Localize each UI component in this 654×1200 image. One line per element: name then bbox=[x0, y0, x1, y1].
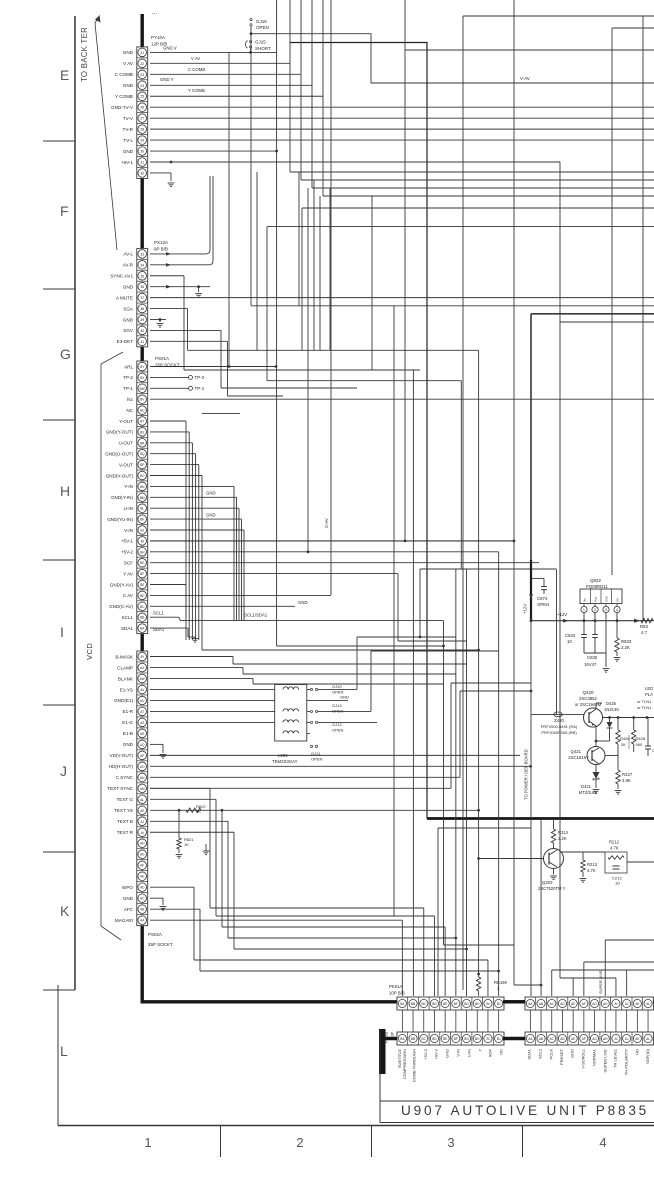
svg-text:GND: GND bbox=[123, 149, 134, 154]
svg-text:Vin: Vin bbox=[582, 598, 586, 602]
svg-text:or TLN1: or TLN1 bbox=[637, 699, 652, 704]
svg-text:2SC1815Y: 2SC1815Y bbox=[568, 755, 589, 760]
svg-text:Y-IN: Y-IN bbox=[124, 484, 133, 489]
svg-text:BJ: BJ bbox=[140, 529, 144, 533]
svg-text:R83: R83 bbox=[640, 624, 648, 629]
svg-text:BE: BE bbox=[443, 1002, 447, 1006]
svg-text:Q203: Q203 bbox=[542, 880, 553, 885]
svg-text:TH POLARITY: TH POLARITY bbox=[624, 1049, 629, 1076]
svg-text:GND: GND bbox=[123, 742, 134, 747]
svg-text:D426: D426 bbox=[606, 701, 617, 706]
svg-text:BI: BI bbox=[486, 1002, 489, 1006]
svg-text:OPEN: OPEN bbox=[332, 728, 343, 733]
svg-text:2SC7520TM Y: 2SC7520TM Y bbox=[538, 886, 566, 891]
svg-text:AB: AB bbox=[539, 1002, 543, 1006]
svg-text:34: 34 bbox=[140, 263, 144, 267]
svg-text:PRESET: PRESET bbox=[559, 1048, 564, 1065]
svg-text:PRF2000-5491 (RA): PRF2000-5491 (RA) bbox=[541, 724, 578, 729]
svg-text:WPO: WPO bbox=[122, 885, 133, 890]
svg-text:SDA1: SDA1 bbox=[153, 627, 165, 632]
svg-text:21: 21 bbox=[140, 51, 144, 55]
svg-text:3: 3 bbox=[447, 1135, 454, 1150]
svg-text:AH: AH bbox=[603, 1037, 608, 1041]
svg-text:GND: GND bbox=[123, 50, 134, 55]
svg-text:1: 1 bbox=[583, 608, 585, 612]
svg-text:F: F bbox=[60, 203, 69, 219]
svg-text:+9V-2: +9V-2 bbox=[434, 1048, 439, 1059]
svg-text:BR: BR bbox=[140, 441, 145, 445]
svg-text:BD: BD bbox=[140, 594, 145, 598]
svg-text:38: 38 bbox=[140, 307, 144, 311]
svg-text:BD: BD bbox=[432, 1002, 437, 1006]
svg-text:2: 2 bbox=[296, 1135, 303, 1150]
svg-text:Vout: Vout bbox=[593, 597, 597, 602]
svg-text:BH: BH bbox=[475, 1037, 480, 1041]
svg-text:E1-G: E1-G bbox=[122, 720, 133, 725]
svg-text:TEXT YS: TEXT YS bbox=[114, 808, 133, 813]
svg-text:3.9K: 3.9K bbox=[622, 778, 631, 783]
svg-text:AD: AD bbox=[140, 886, 145, 890]
svg-text:Y COMB: Y COMB bbox=[188, 88, 205, 93]
svg-text:GJ11: GJ11 bbox=[311, 751, 321, 756]
svg-text:33: 33 bbox=[140, 252, 144, 256]
svg-text:AH: AH bbox=[603, 1002, 608, 1006]
svg-text:Y AV: Y AV bbox=[123, 571, 134, 576]
svg-text:AL: AL bbox=[140, 798, 144, 802]
svg-text:RK196: RK196 bbox=[494, 980, 507, 985]
svg-text:OPEN: OPEN bbox=[311, 757, 322, 762]
svg-text:BG: BG bbox=[464, 1002, 469, 1006]
svg-text:TO POWER / DEF BOARD: TO POWER / DEF BOARD bbox=[523, 749, 528, 800]
svg-text:TO BACK TER: TO BACK TER bbox=[80, 27, 89, 82]
svg-text:C COMB: C COMB bbox=[115, 72, 133, 77]
svg-text:2.2K: 2.2K bbox=[558, 836, 567, 841]
svg-text:BU: BU bbox=[140, 409, 145, 413]
svg-text:R427: R427 bbox=[622, 772, 633, 777]
svg-text:AI: AI bbox=[141, 831, 144, 835]
svg-text:SGA: SGA bbox=[123, 306, 134, 311]
svg-text:AD: AD bbox=[560, 1037, 565, 1041]
svg-text:24: 24 bbox=[140, 84, 144, 88]
svg-text:HD: HD bbox=[635, 1049, 640, 1055]
svg-text:SDA1: SDA1 bbox=[121, 626, 133, 631]
svg-text:R833: R833 bbox=[621, 639, 632, 644]
svg-text:BG: BG bbox=[140, 561, 145, 565]
svg-text:U-IN: U-IN bbox=[124, 506, 133, 511]
svg-text:AJ: AJ bbox=[625, 1002, 629, 1006]
svg-text:Y: Y bbox=[478, 1049, 483, 1052]
svg-text:C AV: C AV bbox=[123, 593, 134, 598]
svg-text:22: 22 bbox=[140, 62, 144, 66]
svg-text:TEXT B: TEXT B bbox=[117, 819, 133, 824]
svg-text:BM: BM bbox=[140, 496, 145, 500]
svg-text:AU: AU bbox=[140, 699, 145, 703]
svg-text:BO: BO bbox=[140, 474, 145, 478]
svg-text:AC: AC bbox=[140, 897, 145, 901]
svg-text:AR: AR bbox=[140, 732, 145, 736]
svg-text:AF: AF bbox=[140, 864, 144, 868]
svg-text:COMB THROUGH: COMB THROUGH bbox=[412, 1049, 417, 1082]
svg-text:BQ: BQ bbox=[140, 452, 145, 456]
svg-text:GND: GND bbox=[340, 695, 349, 700]
svg-text:Z420: Z420 bbox=[554, 718, 564, 723]
svg-text:BP: BP bbox=[140, 463, 144, 467]
svg-text:SGV: SGV bbox=[123, 328, 134, 333]
svg-text:GND(E1): GND(E1) bbox=[114, 698, 133, 703]
svg-text:TP-1: TP-1 bbox=[123, 386, 133, 391]
svg-text:E1-B: E1-B bbox=[123, 731, 133, 736]
svg-text:SCL1: SCL1 bbox=[538, 1048, 543, 1059]
svg-text:ARL: ARL bbox=[124, 364, 133, 369]
svg-text:R213: R213 bbox=[587, 862, 598, 867]
svg-text:BF: BF bbox=[454, 1002, 458, 1006]
svg-text:SCL1: SCL1 bbox=[153, 611, 164, 616]
svg-text:BB: BB bbox=[411, 1002, 415, 1006]
svg-text:MTZ/5.6B: MTZ/5.6B bbox=[579, 790, 598, 795]
svg-text:AI: AI bbox=[614, 1002, 617, 1006]
svg-text:AF: AF bbox=[582, 1002, 586, 1006]
svg-text:TEXT SYNC: TEXT SYNC bbox=[107, 786, 133, 791]
svg-text:E1-YS: E1-YS bbox=[120, 687, 133, 692]
svg-text:2: 2 bbox=[594, 608, 596, 612]
svg-text:4.7K: 4.7K bbox=[587, 868, 596, 873]
svg-text:VD(V-OUT): VD(V-OUT) bbox=[110, 753, 134, 758]
svg-text:BD: BD bbox=[432, 1037, 437, 1041]
svg-text:AFC: AFC bbox=[124, 907, 134, 912]
svg-text:1N4148: 1N4148 bbox=[604, 707, 619, 712]
svg-text:TP-2: TP-2 bbox=[195, 375, 205, 380]
svg-text:MAGARI: MAGARI bbox=[115, 918, 133, 923]
svg-text:BT: BT bbox=[140, 420, 144, 424]
svg-text:AL: AL bbox=[646, 1002, 650, 1006]
svg-text:10P B/B: 10P B/B bbox=[389, 991, 405, 996]
svg-text:TP-2: TP-2 bbox=[123, 375, 133, 380]
svg-text:H: H bbox=[60, 483, 70, 499]
svg-text:TEM2S3GAY: TEM2S3GAY bbox=[272, 759, 298, 764]
svg-text:V-AV: V-AV bbox=[520, 76, 530, 81]
svg-text:GJ12: GJ12 bbox=[332, 722, 342, 727]
svg-text:GND: GND bbox=[445, 1049, 450, 1058]
svg-text:37: 37 bbox=[140, 296, 144, 300]
svg-text:TEXT R: TEXT R bbox=[117, 830, 134, 835]
svg-text:BLANK: BLANK bbox=[118, 676, 134, 681]
svg-text:OPEN: OPEN bbox=[332, 709, 343, 714]
svg-text:OPEN: OPEN bbox=[332, 690, 343, 695]
svg-text:10: 10 bbox=[567, 639, 572, 644]
svg-text:GND: GND bbox=[206, 491, 216, 496]
svg-text:D421: D421 bbox=[581, 784, 592, 789]
svg-text:C-AV: C-AV bbox=[324, 518, 329, 528]
svg-text:J: J bbox=[60, 763, 67, 779]
svg-text:TV-L: TV-L bbox=[123, 138, 133, 143]
svg-text:GND(Y-OUT): GND(Y-OUT) bbox=[106, 430, 134, 435]
svg-text:AV-L: AV-L bbox=[123, 252, 133, 257]
svg-text:HD(H-OUT): HD(H-OUT) bbox=[109, 764, 134, 769]
svg-text:32: 32 bbox=[140, 171, 144, 175]
svg-text:A MUTE: A MUTE bbox=[116, 295, 133, 300]
svg-text:NC: NC bbox=[126, 408, 133, 413]
svg-text:10P: 10P bbox=[391, 1031, 395, 1038]
svg-text:4: 4 bbox=[599, 1135, 606, 1150]
svg-text:V AV: V AV bbox=[123, 61, 134, 66]
svg-text:GND Y: GND Y bbox=[160, 77, 174, 82]
svg-text:4: 4 bbox=[616, 608, 618, 612]
svg-text:AB: AB bbox=[140, 908, 144, 912]
svg-text:CLAMP: CLAMP bbox=[117, 665, 133, 670]
svg-text:1K: 1K bbox=[184, 842, 189, 847]
svg-text:AE: AE bbox=[571, 1037, 575, 1041]
svg-text:C SYNC: C SYNC bbox=[116, 775, 134, 780]
svg-text:AQ: AQ bbox=[140, 743, 145, 747]
svg-text:AS: AS bbox=[140, 721, 144, 725]
svg-text:12P B/B: 12P B/B bbox=[151, 42, 167, 47]
svg-text:Y COMB: Y COMB bbox=[115, 94, 133, 99]
svg-text:BB: BB bbox=[140, 616, 144, 620]
svg-text:AF: AF bbox=[582, 1037, 586, 1041]
svg-text:C COMB: C COMB bbox=[188, 67, 205, 72]
svg-text:or TLN1: or TLN1 bbox=[637, 705, 652, 710]
svg-text:SDA1: SDA1 bbox=[527, 1048, 532, 1059]
svg-text:GND(C-AV): GND(C-AV) bbox=[109, 604, 133, 609]
svg-text:Y-OUT: Y-OUT bbox=[119, 419, 133, 424]
svg-text:E3-DET: E3-DET bbox=[117, 339, 134, 344]
svg-text:9P B/B: 9P B/B bbox=[154, 247, 168, 252]
svg-text:TV-V: TV-V bbox=[123, 116, 134, 121]
svg-text:AP: AP bbox=[140, 754, 144, 758]
svg-text:ON: ON bbox=[615, 598, 619, 602]
svg-text:GND(Y-IN): GND(Y-IN) bbox=[111, 495, 134, 500]
svg-text:AG: AG bbox=[592, 1002, 597, 1006]
svg-text:AN: AN bbox=[140, 776, 145, 780]
svg-text:BB: BB bbox=[411, 1037, 415, 1041]
svg-text:+5V-1: +5V-1 bbox=[121, 539, 134, 544]
svg-text:SCL1/SDA1: SCL1/SDA1 bbox=[244, 613, 268, 618]
svg-text:AG: AG bbox=[592, 1037, 597, 1041]
svg-text:SOF(ID): SOF(ID) bbox=[645, 1048, 650, 1064]
svg-text:AW: AW bbox=[140, 677, 145, 681]
svg-text:PY10A: PY10A bbox=[151, 35, 165, 40]
svg-text:+9V-1: +9V-1 bbox=[121, 160, 134, 165]
svg-text:BH: BH bbox=[140, 550, 145, 554]
svg-text:R214: R214 bbox=[558, 830, 569, 835]
svg-text:40: 40 bbox=[140, 329, 144, 333]
svg-text:Q421: Q421 bbox=[570, 749, 581, 754]
svg-text:L203: L203 bbox=[278, 753, 288, 758]
svg-text:AG: AG bbox=[140, 853, 145, 857]
svg-text:GJ10: GJ10 bbox=[332, 684, 342, 689]
svg-text:29: 29 bbox=[140, 139, 144, 143]
svg-text:V-IN: V-IN bbox=[456, 1049, 461, 1057]
svg-text:SUPER LIVE: SUPER LIVE bbox=[603, 1049, 608, 1073]
svg-text:31: 31 bbox=[140, 161, 144, 165]
svg-text:1K: 1K bbox=[196, 809, 201, 814]
svg-text:SHORT: SHORT bbox=[255, 46, 271, 51]
svg-text:AO: AO bbox=[140, 765, 145, 769]
svg-text:BC: BC bbox=[422, 1002, 427, 1006]
svg-text:GND: GND bbox=[570, 1049, 575, 1058]
svg-text:G: G bbox=[60, 346, 71, 362]
svg-text:V-SCROLL: V-SCROLL bbox=[581, 1048, 586, 1069]
svg-text:Q420: Q420 bbox=[582, 690, 594, 695]
svg-text:3: 3 bbox=[605, 608, 607, 612]
svg-text:GND-TV-V: GND-TV-V bbox=[111, 105, 134, 110]
svg-text:+5V-2: +5V-2 bbox=[423, 1048, 428, 1059]
svg-text:BN: BN bbox=[140, 485, 145, 489]
svg-text:C874: C874 bbox=[537, 596, 548, 601]
svg-text:U-IN: U-IN bbox=[467, 1049, 472, 1057]
svg-text:GND: GND bbox=[123, 896, 134, 901]
svg-text:25P SOCKT: 25P SOCKT bbox=[148, 942, 173, 947]
svg-text:U907 AUTOLIVE UNIT P8835: U907 AUTOLIVE UNIT P8835 bbox=[401, 1103, 649, 1118]
svg-text:BE: BE bbox=[140, 583, 144, 587]
svg-text:BI: BI bbox=[141, 539, 144, 543]
svg-text:AC: AC bbox=[550, 1037, 555, 1041]
svg-text:BG: BG bbox=[464, 1037, 469, 1041]
svg-text:BF: BF bbox=[454, 1037, 458, 1041]
svg-text:+12V: +12V bbox=[523, 604, 528, 614]
svg-text:2SC3852: 2SC3852 bbox=[579, 696, 598, 701]
svg-text:GND(V-OUT): GND(V-OUT) bbox=[106, 473, 134, 478]
svg-text:BL: BL bbox=[140, 507, 144, 511]
svg-text:fsc: fsc bbox=[127, 397, 134, 402]
svg-text:39: 39 bbox=[140, 318, 144, 322]
svg-text:GND(YU-IN): GND(YU-IN) bbox=[107, 517, 133, 522]
svg-text:I: I bbox=[60, 624, 64, 640]
svg-text:BI: BI bbox=[486, 1037, 489, 1041]
svg-text:GJ15: GJ15 bbox=[255, 40, 266, 45]
svg-text:SYNC-AV1: SYNC-AV1 bbox=[110, 274, 133, 279]
svg-text:30: 30 bbox=[140, 150, 144, 154]
svg-text:SOF: SOF bbox=[488, 1048, 493, 1057]
svg-text:PK21B: PK21B bbox=[385, 1031, 389, 1043]
svg-text:2K: 2K bbox=[621, 742, 626, 747]
svg-text:TEXT G: TEXT G bbox=[116, 797, 133, 802]
svg-text:AM: AM bbox=[140, 787, 145, 791]
svg-text:PRF2000F008 (RB): PRF2000F008 (RB) bbox=[541, 730, 577, 735]
svg-text:35: 35 bbox=[140, 274, 144, 278]
svg-text:23: 23 bbox=[140, 73, 144, 77]
svg-text:28: 28 bbox=[140, 128, 144, 132]
svg-text:GND(U-OUT): GND(U-OUT) bbox=[105, 452, 133, 457]
svg-text:AC: AC bbox=[550, 1002, 555, 1006]
svg-text:AD: AD bbox=[560, 1002, 565, 1006]
svg-text:PS02A: PS02A bbox=[148, 932, 162, 937]
svg-text:BJ: BJ bbox=[497, 1037, 501, 1041]
svg-text:TH LEVEL: TH LEVEL bbox=[613, 1048, 618, 1068]
svg-text:AT: AT bbox=[140, 710, 144, 714]
svg-text:PX12A: PX12A bbox=[154, 240, 168, 245]
svg-text:BW: BW bbox=[140, 387, 145, 391]
svg-text:GND: GND bbox=[123, 83, 134, 88]
svg-text:PCLK: PCLK bbox=[549, 1049, 554, 1060]
svg-text:AJ: AJ bbox=[625, 1037, 629, 1041]
svg-text:Q832: Q832 bbox=[590, 578, 602, 583]
svg-text:560: 560 bbox=[636, 742, 643, 747]
svg-text:AE: AE bbox=[140, 875, 144, 879]
svg-text:AB: AB bbox=[539, 1037, 543, 1041]
svg-text:27: 27 bbox=[140, 117, 144, 121]
svg-text:GJ13: GJ13 bbox=[332, 703, 342, 708]
svg-text:C835: C835 bbox=[587, 655, 598, 660]
svg-text:NC: NC bbox=[499, 1049, 504, 1055]
svg-text:COMPRESSION: COMPRESSION bbox=[402, 1049, 407, 1079]
svg-text:SCL1: SCL1 bbox=[122, 615, 134, 620]
svg-text:TP-1: TP-1 bbox=[195, 386, 205, 391]
svg-text:NORMAL: NORMAL bbox=[592, 1048, 597, 1066]
svg-text:...: ... bbox=[152, 10, 157, 16]
svg-text:AV-R: AV-R bbox=[123, 263, 134, 268]
svg-text:BC: BC bbox=[140, 605, 145, 609]
svg-text:GND(Y-AV): GND(Y-AV) bbox=[110, 582, 134, 587]
svg-text:1: 1 bbox=[144, 1135, 151, 1150]
svg-text:B-MASK: B-MASK bbox=[115, 654, 134, 659]
svg-text:SUPER LIVE: SUPER LIVE bbox=[598, 970, 603, 994]
svg-text:SCF: SCF bbox=[124, 561, 133, 566]
svg-text:AJ: AJ bbox=[140, 820, 144, 824]
svg-text:PS01A: PS01A bbox=[155, 356, 169, 361]
svg-text:4.7: 4.7 bbox=[641, 630, 648, 635]
svg-text:2.2K: 2.2K bbox=[621, 645, 630, 650]
svg-text:BH: BH bbox=[475, 1002, 480, 1006]
svg-text:TV-R: TV-R bbox=[123, 127, 134, 132]
svg-text:PQ09RD11: PQ09RD11 bbox=[586, 584, 608, 589]
svg-text:U-OUT: U-OUT bbox=[118, 441, 133, 446]
svg-text:+12V: +12V bbox=[557, 612, 567, 617]
svg-text:26: 26 bbox=[140, 106, 144, 110]
svg-text:AH: AH bbox=[140, 842, 145, 846]
svg-text:GND: GND bbox=[604, 596, 608, 602]
svg-text:VCD: VCD bbox=[85, 643, 94, 660]
svg-text:V-OUT: V-OUT bbox=[119, 462, 133, 467]
svg-text:GND: GND bbox=[123, 317, 134, 322]
svg-text:OPEN: OPEN bbox=[537, 602, 549, 607]
svg-text:L: L bbox=[60, 1043, 68, 1059]
svg-text:BJ: BJ bbox=[497, 1002, 501, 1006]
svg-text:GND: GND bbox=[206, 513, 216, 518]
svg-text:16V47: 16V47 bbox=[584, 662, 597, 667]
svg-text:36: 36 bbox=[140, 285, 144, 289]
svg-text:AL: AL bbox=[646, 1037, 650, 1041]
svg-text:E: E bbox=[60, 67, 69, 83]
svg-text:LED: LED bbox=[645, 686, 653, 691]
svg-text:1D: 1D bbox=[615, 881, 620, 886]
svg-text:E1-R: E1-R bbox=[123, 709, 134, 714]
svg-text:AE: AE bbox=[571, 1002, 575, 1006]
svg-text:GND: GND bbox=[123, 284, 134, 289]
svg-text:41: 41 bbox=[140, 340, 144, 344]
svg-text:V-IN: V-IN bbox=[124, 528, 133, 533]
svg-text:AI: AI bbox=[614, 1037, 617, 1041]
svg-text:4.7K: 4.7K bbox=[610, 846, 619, 851]
svg-text:R428: R428 bbox=[636, 736, 646, 741]
svg-text:GND: GND bbox=[298, 600, 308, 605]
svg-text:25: 25 bbox=[140, 95, 144, 99]
svg-text:K: K bbox=[60, 903, 70, 919]
svg-text:+5V-2: +5V-2 bbox=[121, 550, 134, 555]
svg-text:BC: BC bbox=[422, 1037, 427, 1041]
svg-text:V AV: V AV bbox=[191, 56, 200, 61]
svg-text:BS: BS bbox=[140, 430, 144, 434]
svg-text:PLA: PLA bbox=[645, 692, 653, 697]
svg-text:BE: BE bbox=[443, 1037, 447, 1041]
svg-text:OPEN: OPEN bbox=[256, 25, 269, 30]
svg-text:PK01A: PK01A bbox=[389, 984, 403, 989]
svg-text:GJ16: GJ16 bbox=[256, 19, 267, 24]
svg-text:C834: C834 bbox=[565, 633, 576, 638]
svg-text:R212: R212 bbox=[609, 840, 620, 845]
svg-text:BF: BF bbox=[140, 572, 144, 576]
svg-text:25P SOCKT: 25P SOCKT bbox=[155, 363, 180, 368]
